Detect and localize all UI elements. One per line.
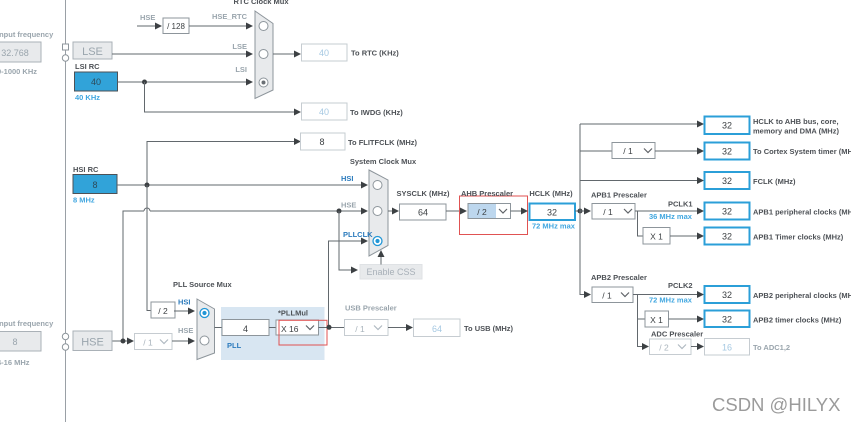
multiplier X1 APB1 <box>643 228 670 245</box>
svg-text:APB2 peripheral clocks (MHz): APB2 peripheral clocks (MHz) <box>753 291 851 300</box>
dropdown USB /1 <box>345 320 389 336</box>
svg-text:8: 8 <box>319 137 324 147</box>
wire /2 to PLL mux <box>174 310 188 312</box>
svg-text:Enable CSS: Enable CSS <box>366 267 415 277</box>
wire bus to FCLK <box>580 180 697 182</box>
radio HSE pll <box>200 336 209 345</box>
box LSE input frequency 32.768 <box>0 42 41 62</box>
svg-text:ADC Prescaler: ADC Prescaler <box>651 330 703 339</box>
wire USB prescaler to box <box>388 327 406 329</box>
wire APB1 to peripheral box <box>635 210 697 212</box>
junction HSI <box>145 183 150 188</box>
wire APB2 to ADC prescaler <box>638 319 643 347</box>
radio HSE_RTC <box>259 22 268 31</box>
svg-text:/ 1: / 1 <box>143 338 153 348</box>
svg-text:32: 32 <box>722 315 732 325</box>
svg-text:HSI RC: HSI RC <box>73 165 99 174</box>
wire HSE to /128 <box>137 25 156 27</box>
svg-text:8 MHz: 8 MHz <box>73 196 95 205</box>
svg-text:PCLK1: PCLK1 <box>668 200 693 209</box>
mux RTC Clock Mux <box>255 11 273 99</box>
svg-text:32: 32 <box>722 176 732 186</box>
svg-text:/ 1: / 1 <box>603 207 613 217</box>
connector pin circle HSE bottom <box>62 344 68 350</box>
divider /128 <box>163 18 189 34</box>
svg-text:72 MHz max: 72 MHz max <box>532 222 576 231</box>
junction LSI <box>142 80 147 85</box>
svg-text:CSDN @HILYX: CSDN @HILYX <box>712 394 840 415</box>
svg-text:PLL: PLL <box>227 341 242 350</box>
box To FLITFCLK value 8 <box>301 133 346 150</box>
wire PLLCLK to system mux <box>329 241 362 328</box>
wire HCLK to bus <box>575 210 580 212</box>
svg-text:40: 40 <box>319 107 329 117</box>
wire AHB to HCLK <box>511 210 522 212</box>
junction HSE css <box>337 209 342 214</box>
left boundary rule <box>65 0 67 422</box>
mux PLL Source Mux <box>197 299 215 360</box>
wire bus to cortex prescaler <box>580 150 612 152</box>
svg-text:16: 16 <box>722 343 732 353</box>
svg-text:HCLK (MHz): HCLK (MHz) <box>529 189 573 198</box>
svg-text:64: 64 <box>418 208 428 218</box>
wire X1 to APB2 timer box <box>669 318 698 320</box>
svg-text:To RTC (KHz): To RTC (KHz) <box>351 49 399 58</box>
svg-text:HCLK to AHB bus, core,: HCLK to AHB bus, core, <box>753 117 839 126</box>
svg-text:LSE: LSE <box>82 46 103 58</box>
oscillator LSE <box>73 42 112 59</box>
svg-text:/ 1: / 1 <box>623 146 633 156</box>
highlight rect PLLMul (red) <box>279 320 327 345</box>
wire sysmux to SYSCLK box <box>388 210 392 212</box>
wire PLL output <box>319 327 346 329</box>
svg-text:USB Prescaler: USB Prescaler <box>345 304 397 313</box>
dropdown ADC /2 <box>650 339 692 355</box>
svg-text:APB1 Prescaler: APB1 Prescaler <box>591 191 647 200</box>
wire HSI to system mux <box>117 184 361 186</box>
svg-text:To FLITFCLK (MHz): To FLITFCLK (MHz) <box>348 138 418 147</box>
wire /128 to RTC mux <box>189 25 247 27</box>
oscillator HSE <box>73 331 112 351</box>
svg-text:32: 32 <box>722 121 732 131</box>
connector pin square LSE <box>63 44 69 50</box>
svg-text:HSE: HSE <box>178 326 193 335</box>
svg-text:LSE: LSE <box>232 42 247 51</box>
svg-text:To IWDG (KHz): To IWDG (KHz) <box>350 108 403 117</box>
radio LSE <box>259 50 268 59</box>
svg-text:HSI: HSI <box>341 174 354 183</box>
svg-text:HSE: HSE <box>81 337 104 349</box>
dropdown APB1 /1 <box>592 204 635 220</box>
junction PLLCLK <box>327 325 332 330</box>
svg-text:APB1 peripheral clocks (MHz): APB1 peripheral clocks (MHz) <box>753 208 851 217</box>
wire LSI to IWDG <box>145 82 295 112</box>
svg-text:/ 1: / 1 <box>355 324 365 334</box>
svg-text:SYSCLK (MHz): SYSCLK (MHz) <box>397 189 450 198</box>
connector pin circle LSE <box>62 55 68 61</box>
box To IWDG value 40 <box>302 103 348 120</box>
radio HSI sys <box>373 181 382 190</box>
box APB2 timer 32 <box>705 311 750 328</box>
svg-text:72 MHz max: 72 MHz max <box>649 296 693 305</box>
svg-text:input frequency: input frequency <box>0 30 54 39</box>
svg-text:/ 2: / 2 <box>158 306 168 316</box>
svg-text:64: 64 <box>432 324 442 334</box>
radio HSE sys <box>373 207 382 216</box>
svg-text:40: 40 <box>319 48 329 58</box>
wire cortex prescaler to box <box>655 150 697 152</box>
svg-text:8: 8 <box>92 180 97 190</box>
svg-text:LSI: LSI <box>235 65 247 74</box>
box To ADC 16 <box>705 339 750 356</box>
dropdown AHB /2 <box>468 204 511 219</box>
svg-text:memory and DMA (MHz): memory and DMA (MHz) <box>753 127 839 136</box>
svg-text:input frequency: input frequency <box>0 319 54 328</box>
highlight rect AHB (red) <box>460 196 528 235</box>
dropdown APB2 /1 <box>592 287 633 303</box>
svg-text:X 1: X 1 <box>650 232 663 242</box>
wire bus to APB2 prescaler <box>580 294 584 296</box>
radio LSI selected <box>259 78 268 87</box>
junction HCLK bus <box>578 209 583 214</box>
wire PLL mux to mul input <box>215 327 223 329</box>
wire bus to APB1 prescaler <box>580 210 584 212</box>
mux System Clock Mux <box>369 170 388 256</box>
svg-text:APB1 Timer clocks (MHz): APB1 Timer clocks (MHz) <box>753 233 844 242</box>
svg-text:AHB Prescaler: AHB Prescaler <box>461 189 513 198</box>
svg-text:*PLLMul: *PLLMul <box>278 309 308 318</box>
wire LSI to mux <box>118 81 247 83</box>
svg-text:32.768: 32.768 <box>1 48 29 58</box>
box APB1 peripheral 32 <box>705 203 750 220</box>
wire HSE column to system mux <box>123 211 144 341</box>
wire HSE box to /1 <box>112 340 127 342</box>
oscillator HSI RC 8 <box>73 175 117 194</box>
wire HCLK distribution bus <box>579 124 581 295</box>
svg-text:HSE: HSE <box>140 13 155 22</box>
radio HSI pll selected <box>200 309 209 318</box>
divider /2 PLL <box>151 302 175 318</box>
svg-text:LSI RC: LSI RC <box>75 62 100 71</box>
box HCLK 32 <box>530 204 576 221</box>
svg-text:HSI: HSI <box>178 298 191 307</box>
oscillator LSI RC 40 <box>75 72 118 91</box>
svg-text:40: 40 <box>91 77 101 87</box>
svg-text:4-16 MHz: 4-16 MHz <box>0 358 30 367</box>
svg-text:To ADC1,2: To ADC1,2 <box>753 343 790 352</box>
svg-text:32: 32 <box>722 232 732 242</box>
svg-text:APB2 Prescaler: APB2 Prescaler <box>591 273 647 282</box>
svg-text:System Clock Mux: System Clock Mux <box>350 157 417 166</box>
multiplier X1 APB2 <box>645 311 669 327</box>
svg-text:0-1000 KHz: 0-1000 KHz <box>0 67 37 76</box>
svg-text:/ 128: / 128 <box>167 22 185 31</box>
wire HSI down to PLL /2 <box>147 185 151 311</box>
svg-text:To Cortex System timer (MHz): To Cortex System timer (MHz) <box>753 147 851 156</box>
svg-text:/ 2: / 2 <box>659 343 669 353</box>
arrow Enable CSS to mux <box>380 256 382 265</box>
svg-text:X 16: X 16 <box>281 324 299 334</box>
svg-text:PLLCLK: PLLCLK <box>343 230 373 239</box>
wire ADC prescaler to box <box>691 346 697 348</box>
svg-text:PLL Source Mux: PLL Source Mux <box>173 280 232 289</box>
box cortex timer 32 <box>705 143 750 160</box>
svg-text:APB2 timer clocks (MHz): APB2 timer clocks (MHz) <box>753 316 842 325</box>
button Enable CSS <box>360 265 422 280</box>
dropdown HSE /1 <box>135 334 173 350</box>
svg-text:HSE: HSE <box>341 201 356 210</box>
wire /1 to PLL mux <box>172 340 188 342</box>
box HSE input frequency 8 <box>0 332 41 352</box>
svg-text:RTC Clock Mux: RTC Clock Mux <box>233 0 289 6</box>
box FCLK 32 <box>705 172 750 189</box>
box To RTC value 40 <box>302 44 348 61</box>
dropdown PLLMul X16 <box>276 320 319 335</box>
svg-text:HSE_RTC: HSE_RTC <box>212 12 248 21</box>
svg-text:32: 32 <box>722 207 732 217</box>
svg-text:X 1: X 1 <box>650 315 663 325</box>
svg-text:8: 8 <box>12 337 17 347</box>
box APB1 timer 32 <box>705 228 750 245</box>
junction HSE <box>121 339 126 344</box>
connector pin circle HSE top <box>62 333 68 339</box>
dropdown cortex /1 <box>612 143 655 159</box>
box To USB 64 <box>414 319 461 337</box>
wire LSE to mux <box>112 53 246 55</box>
box SYSCLK 64 <box>400 204 447 220</box>
svg-text:40 KHz: 40 KHz <box>75 93 100 102</box>
radio PLLCLK selected <box>373 237 382 246</box>
svg-text:To USB (MHz): To USB (MHz) <box>464 324 514 333</box>
PLL block shaded <box>221 307 325 360</box>
wire X1 to APB1 timer box <box>670 235 697 237</box>
wire APB2 to peripheral box <box>633 294 697 296</box>
box PLL input 4 <box>222 320 269 336</box>
box APB2 peripheral 32 <box>705 286 750 303</box>
wire HSE to Enable CSS <box>339 211 351 270</box>
svg-text:/ 2: / 2 <box>477 207 487 217</box>
svg-text:32: 32 <box>722 290 732 300</box>
svg-text:PCLK2: PCLK2 <box>668 281 693 290</box>
svg-text:32: 32 <box>722 147 732 157</box>
wire HSI to FLITFCLK <box>147 142 294 186</box>
svg-text:36 MHz max: 36 MHz max <box>649 212 693 221</box>
wire RTC mux output <box>273 53 294 55</box>
wire 4 to PLLMul <box>269 327 276 329</box>
wire bus to HCLK AHB <box>580 123 697 125</box>
svg-text:FCLK (MHz): FCLK (MHz) <box>753 177 796 186</box>
svg-text:4: 4 <box>243 324 248 334</box>
box HCLK AHB 32 <box>705 117 750 135</box>
svg-text:32: 32 <box>547 208 557 218</box>
wire APB1 to X1 <box>638 211 644 236</box>
wire SYSCLK to AHB prescaler <box>446 210 460 212</box>
svg-text:/ 1: / 1 <box>602 291 612 301</box>
wire APB2 to X1 <box>638 295 646 320</box>
